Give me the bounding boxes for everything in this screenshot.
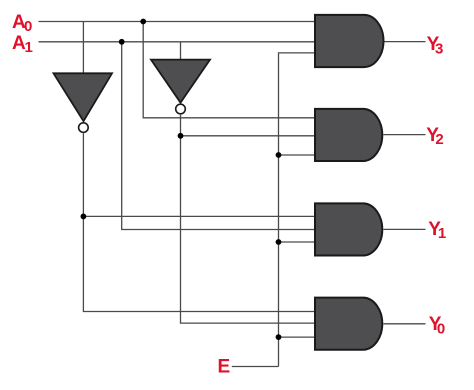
node junction dot on A1 bbox=[119, 39, 125, 45]
svg-text:1: 1 bbox=[438, 225, 446, 242]
node junction dot on A0 bbox=[140, 19, 146, 25]
svg-text:2: 2 bbox=[435, 131, 443, 148]
wire E to gate Y1 bottom input bbox=[279, 241, 316, 243]
wire inverter U2 output vertical bbox=[181, 115, 316, 323]
svg-text:1: 1 bbox=[25, 39, 33, 56]
node junction dot U1 output to Y1 bbox=[81, 214, 87, 220]
wire inverter U2 input bbox=[180, 42, 182, 60]
wire A0 horizontal bbox=[39, 21, 316, 23]
wire A0 branch vertical bbox=[143, 22, 315, 118]
wire output Y3 bbox=[384, 41, 426, 43]
AND gate G1 (output Y1) bbox=[315, 203, 382, 255]
wire inverter U1 input bbox=[82, 22, 84, 74]
AND gate G2 (output Y2) bbox=[315, 109, 382, 161]
wire output Y2 bbox=[384, 134, 426, 136]
node junction dot E to Y0 bbox=[276, 334, 282, 340]
svg-text:3: 3 bbox=[435, 40, 443, 57]
wire E to gate Y2 bottom input bbox=[279, 154, 316, 156]
wire A1 horizontal bbox=[39, 41, 316, 43]
wire output Y0 bbox=[384, 323, 426, 325]
node junction dot E to Y2 bbox=[276, 152, 282, 158]
wire E vertical bbox=[279, 53, 316, 367]
wire E horizontal bbox=[232, 366, 279, 368]
svg-text:0: 0 bbox=[437, 321, 445, 338]
wire U2 to gate Y2 middle input bbox=[181, 135, 316, 137]
AND gate G0 (output Y0) bbox=[315, 298, 382, 350]
wire output Y1 bbox=[384, 228, 426, 230]
wire inverter U1 output vertical bbox=[83, 133, 315, 311]
inverter U1 (NOT gate for A0) bbox=[54, 73, 113, 132]
svg-text:E: E bbox=[218, 357, 231, 378]
inverter U2 (NOT gate for A1) bbox=[151, 60, 210, 114]
wire A1 branch vertical bbox=[122, 42, 315, 230]
wire E to gate Y0 bottom input bbox=[279, 336, 316, 338]
node junction dot U2 output to Y2 bbox=[178, 133, 184, 139]
AND gate G3 (output Y3) bbox=[315, 15, 384, 67]
wire U1 to gate Y1 top input bbox=[83, 215, 315, 217]
node junction dot E to Y1 bbox=[276, 239, 282, 245]
